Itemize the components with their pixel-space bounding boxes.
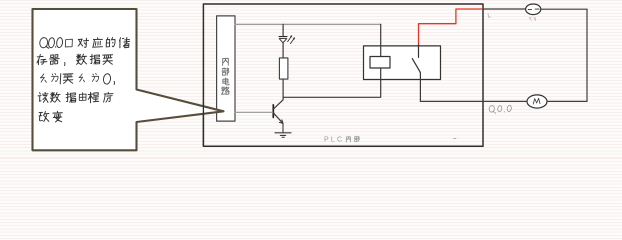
wire external top right [541, 8, 587, 10]
transistor Q1 emitter lead [274, 113, 283, 123]
tiny dash mark [454, 138, 457, 140]
bubble text line 5: 改变 [39, 111, 62, 122]
wire top rail from internal block to relay coil [235, 23, 381, 25]
load motor M1 [527, 95, 547, 108]
wire external bottom left [420, 100, 527, 102]
wire base from internal block [235, 111, 273, 113]
wire LED anode drop [282, 24, 284, 36]
svg-text:PLC: PLC [324, 137, 344, 144]
wire contact to bottom external [419, 73, 421, 102]
resistor R1 [279, 58, 288, 79]
faint mark near output [488, 14, 491, 18]
label 内部电路 (vertical) [222, 58, 230, 94]
relay coil K1 [370, 57, 390, 69]
wire external bottom right [547, 100, 587, 102]
transistor Q1 base bar [272, 105, 274, 118]
wire collector node to relay coil bottom [283, 68, 381, 97]
callout bubble [33, 9, 224, 150]
wire LED cathode to resistor [282, 43, 284, 58]
relay contact fixed terminal [418, 44, 420, 57]
label PLC 内部 [324, 136, 359, 143]
wire coil top feed [380, 24, 382, 56]
relay contact blade [412, 59, 420, 73]
LED indicator D1 [279, 37, 287, 43]
label Q0.0 handwritten [489, 105, 512, 113]
terminal T1 inner dashes [528, 9, 540, 10]
wire external right side [586, 9, 588, 101]
bubble text line 3: 么为1要么为0， [40, 73, 114, 84]
bubble text line 4: 该数据由程序 [38, 92, 113, 102]
terminal lamp T1 [526, 4, 541, 15]
wire resistor to collector node [282, 79, 284, 97]
PLC enclosure [203, 4, 483, 146]
faint label under terminal [529, 17, 536, 20]
wire coil bottom inside box [380, 68, 382, 80]
LED light arrows [288, 35, 296, 43]
wire external top left [483, 8, 525, 10]
internal circuit block U1 [217, 16, 235, 121]
ground symbol [275, 133, 291, 137]
bubble text line 2: 存器，数据要 [37, 54, 113, 65]
relay K1 enclosure [364, 46, 441, 80]
bubble text line 1: Q0.0口对应的储 [39, 37, 129, 48]
motor M mark [533, 98, 540, 104]
wire emitter to ground [282, 123, 284, 132]
transistor Q1 collector lead [274, 97, 284, 109]
PLC enclosure left edge overlay [202, 104, 204, 146]
wire red output lead [419, 9, 484, 44]
